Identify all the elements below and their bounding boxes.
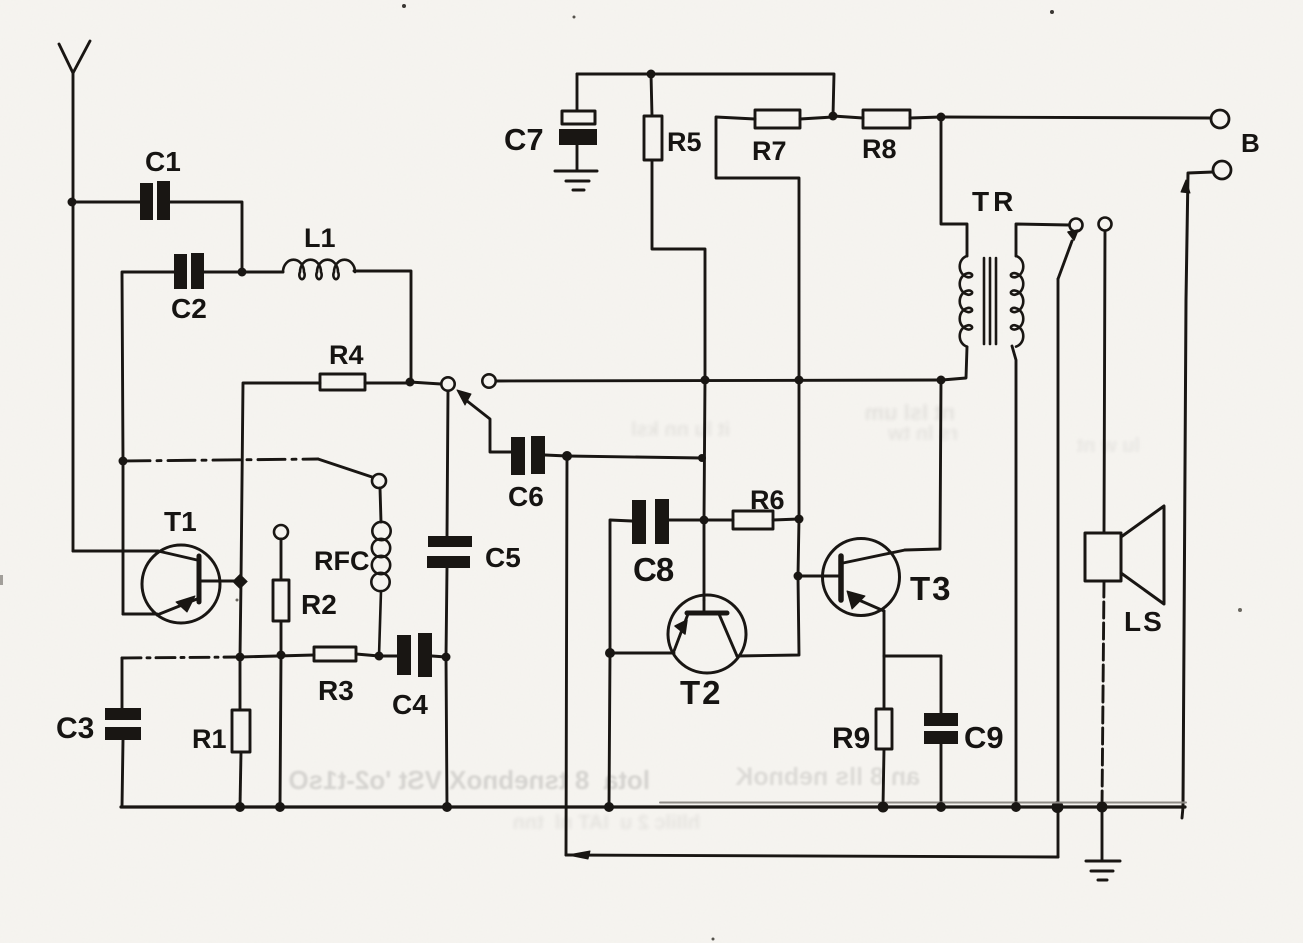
- wire C1 to node: [170, 202, 242, 272]
- wire C2 right: [204, 271, 242, 274]
- wire R8 node down to TR primary: [941, 117, 967, 256]
- battery terminal B1: [1211, 110, 1229, 128]
- wire R8 node to battery B1: [941, 117, 1211, 118]
- capacitor C5: [427, 536, 472, 568]
- svg-text:T2: T2: [680, 674, 723, 711]
- svg-text:lu w nt: lu w nt: [1076, 435, 1140, 457]
- resistor R3: [314, 647, 356, 661]
- svg-text:it lu nn ksl: it lu nn ksl: [631, 419, 730, 441]
- wire TR primary bottom: [942, 347, 967, 380]
- svg-text:LS: LS: [1124, 606, 1164, 637]
- wire return bottom: [566, 855, 1058, 857]
- node R8 right: [937, 113, 946, 122]
- resistor R5: [644, 74, 705, 380]
- wire R1 top: [239, 657, 242, 710]
- node T2 emitter: [605, 648, 615, 658]
- svg-text:L1: L1: [304, 223, 336, 253]
- svg-text:R8: R8: [862, 134, 897, 164]
- blob node on bus: [1052, 801, 1064, 813]
- wire C6 right: [545, 455, 567, 456]
- bus gray shadow line: [660, 802, 1186, 804]
- top supply rail: [577, 74, 834, 116]
- node on C2 line (switch wiper): [119, 457, 128, 466]
- antenna: [59, 41, 90, 73]
- transformer TR primary: [960, 256, 972, 347]
- resistor R4: [320, 374, 365, 390]
- capacitor C4: [397, 633, 432, 677]
- node C6: [562, 451, 572, 461]
- svg-text:R6: R6: [750, 485, 785, 515]
- wire TR node down to T3 collector: [905, 380, 941, 550]
- node antenna-C1: [68, 198, 77, 207]
- wire LS down to bus: [1102, 581, 1104, 807]
- wire node to pole: [410, 382, 441, 384]
- node C8-R6: [700, 516, 709, 525]
- wire C5 down: [446, 568, 447, 657]
- wire C8 left down to T2 emitter: [610, 520, 632, 653]
- wire R7-line down through T3 base to T2 collector: [737, 380, 799, 656]
- svg-text:hlIilc 2 u IAT nl tnn: hlIilc 2 u IAT nl tnn: [513, 812, 700, 834]
- node rail-R5 bottom: [701, 376, 710, 385]
- ground bottom right: [1086, 861, 1120, 880]
- resistor R9: [876, 709, 892, 749]
- arrow on B2 wire: [1181, 180, 1190, 193]
- wire R4 left down to T1 base line: [241, 383, 320, 581]
- contact circle A: [1070, 219, 1083, 232]
- stray specks: [402, 4, 406, 8]
- svg-text:C8: C8: [633, 551, 674, 588]
- wire R2 bottom: [280, 621, 283, 655]
- ground bus: [121, 805, 1185, 808]
- svg-text:T3: T3: [910, 570, 953, 607]
- wire pole down through C5: [447, 391, 448, 536]
- transistor T1: [73, 461, 234, 623]
- resistor R1: [232, 710, 250, 752]
- switch S1 throw: [482, 374, 495, 387]
- wire R3 to RFC node: [356, 654, 379, 656]
- wire contact B down to LS: [1104, 231, 1105, 533]
- bus junction dots: [235, 802, 245, 812]
- wire C5 node to bus: [446, 657, 447, 807]
- node C2-L1: [238, 268, 247, 277]
- svg-text:R5: R5: [667, 127, 702, 157]
- capacitor C6: [511, 436, 545, 475]
- svg-text:R9: R9: [832, 722, 870, 755]
- wire T3 emitter to C9: [884, 655, 941, 658]
- svg-text:TR: TR: [972, 186, 1017, 217]
- R2 top terminal: [274, 525, 288, 539]
- svg-text:R7: R7: [752, 136, 787, 166]
- svg-text:rs ln tw: rs ln tw: [888, 423, 958, 445]
- wire TR secondary bottom to bus: [1012, 346, 1016, 807]
- battery switch lever: [1058, 241, 1072, 279]
- wire R2 node to bus: [280, 655, 281, 807]
- wire L1 to R4 node: [354, 271, 411, 382]
- capacitor C1: [140, 181, 170, 220]
- node C4-C5: [442, 653, 451, 662]
- svg-text:B: B: [1241, 128, 1260, 158]
- wire C3 top: [121, 658, 124, 708]
- node R2-R3: [277, 651, 286, 660]
- wire node to L1: [242, 271, 283, 274]
- switch S1 lever with arrow: [462, 397, 511, 452]
- svg-text:T1: T1: [164, 506, 197, 537]
- wire node down to bus: [609, 653, 610, 807]
- svg-text:C7: C7: [504, 122, 544, 157]
- choke RFC: [380, 488, 381, 522]
- svg-text:lota 8 tsnebnoX VSt 'o2-t1sO: lota 8 tsnebnoX VSt 'o2-t1sO: [288, 765, 650, 795]
- svg-text:R3: R3: [318, 675, 354, 706]
- inductor L1: [283, 260, 355, 279]
- svg-text:C2: C2: [171, 293, 207, 324]
- svg-text:C3: C3: [56, 712, 94, 745]
- node T2 base line top: [698, 454, 706, 462]
- wire C8 right: [669, 519, 704, 522]
- svg-text:C1: C1: [145, 146, 181, 177]
- contact circle B (to LS): [1099, 218, 1112, 231]
- switch S1 pole: [441, 377, 454, 390]
- wire node to R4: [365, 382, 410, 385]
- wire C3 bottom to bus: [122, 740, 123, 807]
- node TR-rail-T3: [937, 376, 946, 385]
- node R4-L1-switch: [406, 378, 415, 387]
- wire C4 to C5 node: [432, 656, 446, 657]
- svg-text:RFC: RFC: [314, 546, 370, 576]
- arrow at return corner: [568, 851, 590, 859]
- wire B2 down left side: [1183, 172, 1213, 806]
- wire RFC node to C4: [379, 655, 397, 658]
- svg-text:R2: R2: [301, 589, 337, 620]
- transformer TR core: [984, 258, 996, 344]
- wire throw to supply rail: [496, 380, 941, 381]
- node rail-R7 bottom: [795, 376, 804, 385]
- wire R1 node to R3: [240, 655, 314, 657]
- wire LS bus to ground: [1101, 807, 1104, 861]
- node R1 junction: [236, 653, 245, 662]
- wire R1 bottom: [240, 752, 241, 807]
- svg-text:C4: C4: [392, 689, 428, 720]
- capacitor C3: [105, 708, 141, 740]
- node R7-R8: [829, 112, 838, 121]
- node T1 base: [232, 574, 248, 590]
- transistor T3: [798, 539, 905, 657]
- dash-dot wire C3 to R1 node: [122, 657, 240, 658]
- transistor T2: [610, 595, 746, 673]
- wire C2 left down: [122, 272, 174, 461]
- resistor R8: [833, 110, 941, 128]
- capacitor C8: [632, 499, 669, 544]
- resistor R7: [716, 110, 833, 380]
- ground under C7: [555, 171, 597, 190]
- wire R9 to bus: [883, 749, 884, 807]
- wire C6 node down (crosses bus): [566, 456, 567, 855]
- wire T1 base line down to R1 node: [240, 581, 241, 657]
- node T3 base: [794, 572, 803, 581]
- transformer TR secondary: [1011, 256, 1023, 347]
- node C7-R5 rail: [647, 70, 656, 79]
- svg-text:C5: C5: [485, 542, 521, 573]
- RFC top terminal: [372, 474, 386, 488]
- svg-text:R4: R4: [329, 340, 364, 370]
- wire R2 top: [280, 539, 283, 580]
- wire rail node down to T2 base: [704, 380, 705, 600]
- dashed wiper wire to RFC top: [123, 459, 318, 461]
- resistor R2: [273, 580, 289, 621]
- resistor R6: [704, 511, 799, 529]
- wire C6 node to T2 base line: [567, 456, 702, 458]
- wire antenna to C1: [73, 201, 140, 204]
- node R6 right: [795, 515, 804, 524]
- wire return up to battery switch: [1057, 279, 1060, 857]
- bus right tail: [1182, 807, 1183, 818]
- capacitor C7 (electrolytic): [559, 74, 597, 171]
- svg-text:C9: C9: [964, 720, 1004, 755]
- capacitor C2: [174, 253, 204, 289]
- loudspeaker LS: [1085, 506, 1164, 604]
- svg-text:an 8 lls nebnoK: an 8 lls nebnoK: [735, 763, 920, 791]
- svg-text:nt lsl um: nt lsl um: [865, 400, 955, 425]
- svg-text:R1: R1: [192, 724, 227, 754]
- svg-text:C6: C6: [508, 481, 544, 512]
- battery terminal B2: [1213, 161, 1231, 179]
- wire TR secondary top to switch contact: [1016, 224, 1069, 256]
- capacitor C9: [924, 656, 958, 807]
- wire T3 emitter down to R9: [883, 656, 886, 709]
- node RFC-R3-C4: [375, 652, 384, 661]
